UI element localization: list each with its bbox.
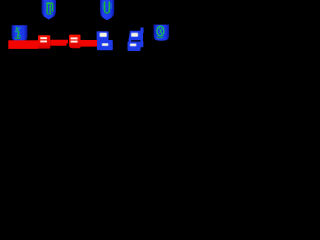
red car 1 bbox=[38, 35, 50, 48]
red bar right segment bbox=[81, 40, 100, 47]
shield emblem B (top middle) bbox=[100, 0, 114, 20]
blue car E lower bbox=[97, 40, 113, 50]
red bar left segment bbox=[8, 40, 38, 49]
shield emblem C (middle left) bbox=[12, 25, 28, 41]
shield emblem A (top left) bbox=[42, 0, 56, 20]
shield emblem D (middle right) bbox=[154, 25, 169, 41]
red car 2 bbox=[69, 35, 81, 49]
red bar middle segment bbox=[50, 40, 68, 46]
blue car F upper (slanted) bbox=[129, 31, 142, 40]
blue mast right of car F bbox=[140, 28, 144, 48]
blue car E upper bbox=[97, 31, 109, 40]
background bbox=[0, 0, 180, 60]
blue car F lower bbox=[128, 39, 141, 52]
